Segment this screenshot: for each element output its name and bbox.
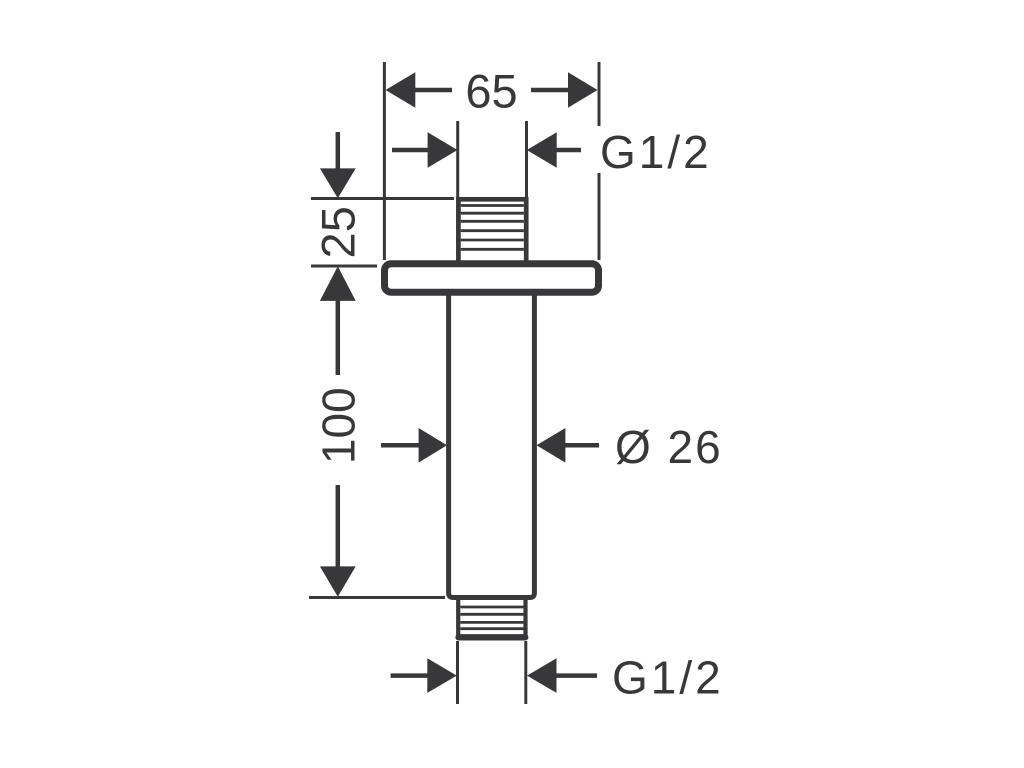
bottom thread right wall — [523, 599, 527, 637]
top thread outline — [458, 199, 526, 261]
100 dim up arrowhead — [320, 266, 356, 301]
diameter 26 right arrow tail — [564, 443, 599, 448]
diameter 26 left arrowhead — [419, 428, 447, 463]
bottom thread end bar — [459, 634, 526, 640]
100 dim line upper segment — [336, 300, 341, 375]
svg-text:Ø 26: Ø 26 — [615, 421, 723, 473]
25 dim down arrowhead — [320, 168, 356, 198]
G1/2 bottom left arrow tail — [391, 673, 429, 678]
bottom thread stripe 3 — [460, 621, 523, 624]
G1/2 top left arrowhead — [428, 132, 458, 167]
G1/2 top left arrow tail — [392, 148, 430, 153]
bottom thread stripe 1 — [460, 606, 523, 609]
top thread stripe 6 — [461, 248, 524, 251]
svg-text:100: 100 — [313, 387, 365, 464]
bottom thread stripe 4 — [460, 627, 523, 630]
svg-text:65: 65 — [465, 65, 517, 118]
dimension line 65 left tail — [413, 88, 452, 93]
svg-text:G1/2: G1/2 — [600, 126, 712, 178]
extension line bottom left — [456, 641, 459, 704]
arrowhead 65 left — [386, 72, 416, 107]
bottom thread stripe 2 — [460, 613, 523, 616]
pipe left wall — [449, 294, 535, 598]
white mask under top G1/2 label — [594, 126, 715, 173]
top thread stripe 1 — [461, 204, 524, 207]
100 dim line lower segment — [336, 485, 341, 568]
tick line flange top level — [311, 265, 377, 268]
diameter 26 right arrowhead — [537, 428, 566, 463]
G1/2 top right arrow tail — [555, 148, 581, 153]
diameter 26 left arrow tail — [381, 443, 421, 448]
extension line left (65 dim) — [383, 62, 386, 260]
top thread stripe 2 — [461, 212, 524, 215]
G1/2 bottom left arrowhead — [427, 658, 457, 693]
flange (escutcheon) — [385, 264, 599, 292]
extension line bottom right — [524, 641, 527, 704]
top thread stripe 4 — [461, 229, 524, 232]
G1/2 bottom right arrow tail — [556, 673, 597, 678]
svg-text:G1/2: G1/2 — [612, 652, 724, 704]
extension line right (65 dim) — [598, 62, 601, 260]
G1/2 top right arrowhead — [527, 132, 557, 167]
arrowhead 65 right — [568, 72, 598, 107]
svg-text:25: 25 — [312, 206, 365, 258]
top thread stripe 3 — [461, 220, 524, 223]
extension line G1/2 top right — [525, 121, 528, 198]
tick line pipe bottom level — [309, 596, 445, 599]
100 dim down arrowhead — [320, 566, 356, 596]
dimension line 65 right tail — [531, 88, 570, 93]
top thread stripe 5 — [461, 239, 524, 242]
G1/2 bottom right arrowhead — [527, 658, 557, 693]
bottom thread left wall — [456, 599, 460, 637]
extension line G1/2 top left — [456, 121, 459, 198]
tick line thread top level — [311, 197, 454, 200]
25 dim upper line — [336, 132, 341, 170]
